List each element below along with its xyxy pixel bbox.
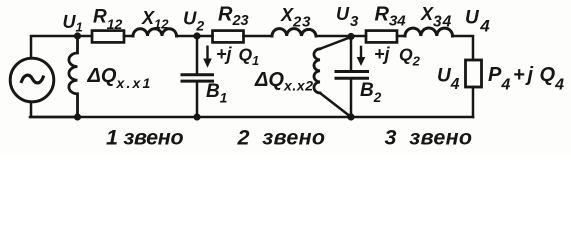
inductor X34 <box>405 28 453 36</box>
wire X34 to load corner <box>453 36 474 60</box>
capacitor B2 <box>336 72 368 79</box>
svg-text:+j: +j <box>374 44 391 64</box>
svg-text:+j: +j <box>216 44 233 64</box>
arrow +jQ2 <box>357 46 366 66</box>
wire U3 diagonal to coil dQx.x2 <box>320 37 351 49</box>
node bottom below U1 <box>74 113 81 120</box>
wire R12 to X12 <box>124 35 133 38</box>
inductor X23 <box>272 29 316 36</box>
resistor R23 <box>213 31 244 43</box>
wire source top lead <box>31 36 92 58</box>
inductor X12 <box>133 29 177 36</box>
node U1 <box>74 32 81 39</box>
node bottom below U3 <box>347 113 354 120</box>
wire U3 to capacitor B2 <box>350 36 353 70</box>
wire bottom rail <box>30 116 473 119</box>
resistor R34 <box>366 31 397 43</box>
node U2 <box>193 32 200 39</box>
wire coil dQx.x2 diagonal to bottom node <box>320 93 351 117</box>
wire X12 to U2 <box>177 35 213 38</box>
resistor R12 <box>92 31 124 43</box>
inductor dQx.x1 shunt at U1 <box>69 36 78 117</box>
node bottom below U2 <box>193 113 200 120</box>
node U3 <box>347 33 354 40</box>
arrow +jQ1 <box>203 46 212 68</box>
wire R23 to X23 <box>244 35 273 38</box>
svg-text:1 звено: 1 звено <box>106 126 183 150</box>
wire X23 to R34 <box>316 35 366 38</box>
wire B2 to bottom rail <box>350 80 353 117</box>
wire R34 to X34 <box>397 35 405 38</box>
capacitor B1 <box>182 75 213 81</box>
load resistor U4 / P4+jQ4 <box>466 60 482 87</box>
AC source G1 <box>10 58 54 102</box>
svg-text:3 звено: 3 звено <box>385 126 473 150</box>
svg-text:2 звено: 2 звено <box>237 126 326 150</box>
wire B1 to bottom rail <box>196 83 199 117</box>
inductor dQx.x2 shunt at U3 <box>314 49 320 93</box>
wire U2 to capacitor B1 <box>196 36 199 73</box>
wire load to bottom rail <box>472 87 475 117</box>
wire source bottom lead <box>31 102 78 117</box>
